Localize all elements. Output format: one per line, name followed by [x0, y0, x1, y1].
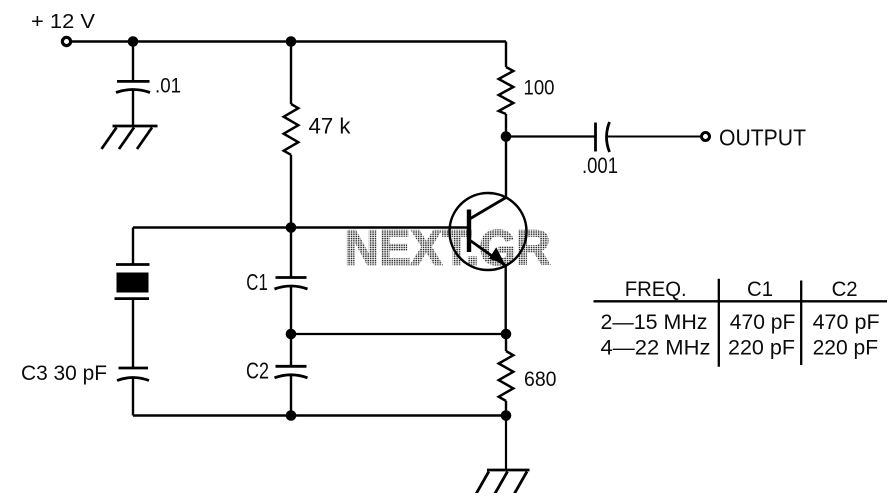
svg-text:.01: .01 [155, 74, 181, 98]
wire 100 bottom lead [505, 114, 507, 137]
wire 680 bottom lead [505, 401, 507, 416]
svg-text:220 pF: 220 pF [728, 336, 795, 360]
node junction top rail / 47k [286, 36, 297, 47]
svg-text:.001: .001 [582, 153, 618, 178]
wire C2 top lead [290, 334, 292, 366]
capacitor .01 [116, 81, 150, 92]
crystal Y1 [115, 265, 150, 299]
wire 47k bottom lead to base node [290, 155, 292, 228]
svg-text:+ 12 V: + 12 V [31, 10, 95, 33]
wire coupling cap to output terminal [608, 136, 701, 138]
svg-text:47 k: 47 k [309, 114, 352, 139]
wire mid row to emitter [291, 333, 506, 335]
wire base node to C1 [290, 228, 292, 278]
svg-text:470 pF: 470 pF [730, 310, 796, 334]
capacitor C1 [275, 278, 308, 290]
wire 680 top lead [505, 334, 507, 351]
node bottom rail / 680 junction [501, 410, 512, 421]
ground (bypass) [102, 126, 158, 149]
resistor R 47k [284, 104, 299, 155]
svg-text:NEXT.GR: NEXT.GR [345, 222, 551, 276]
resistor R 100 [499, 67, 514, 114]
node emitter junction [501, 329, 512, 340]
node base junction [286, 222, 297, 233]
node C1-C2 mid junction [286, 329, 297, 340]
svg-text:2—15 MHz: 2—15 MHz [601, 310, 708, 334]
node bottom rail / C2 junction [286, 410, 297, 421]
svg-text:C1: C1 [246, 269, 267, 295]
wire crystal branch down [132, 228, 134, 265]
ground (emitter network) [476, 470, 530, 494]
wire base lead [133, 226, 467, 228]
node collector/output junction [501, 131, 512, 142]
capacitor .001 [596, 122, 610, 152]
svg-text:C2: C2 [246, 358, 269, 384]
svg-text:OUTPUT: OUTPUT [719, 125, 806, 151]
wire emitter lead [505, 264, 507, 334]
wire C2 to bottom rail [290, 376, 292, 416]
wire collector lead [505, 137, 507, 199]
node OUTPUT terminal [702, 133, 710, 141]
wire C1 to mid node [290, 287, 292, 334]
svg-text:100: 100 [524, 76, 555, 100]
wire crystal to C3 [132, 299, 134, 368]
wire bypass cap to ground [132, 91, 134, 127]
node +12V terminal [62, 37, 70, 45]
wire C3 to bottom rail [132, 379, 134, 416]
svg-text:220 pF: 220 pF [813, 336, 879, 360]
resistor R 680 [499, 351, 514, 401]
node junction top rail / bypass [128, 36, 139, 47]
svg-text:C3 30 pF: C3 30 pF [21, 361, 107, 385]
wire 100 resistor top lead [505, 42, 507, 68]
wire output to coupling cap [506, 135, 596, 137]
table: component value table [594, 279, 888, 367]
svg-text:4—22 MHz: 4—22 MHz [601, 336, 711, 360]
svg-text:680: 680 [524, 367, 557, 391]
wire top rail from +12V to 100 resistor branch [72, 40, 507, 42]
svg-text:FREQ.: FREQ. [625, 277, 687, 301]
svg-text:C1: C1 [747, 277, 773, 301]
wire 47k top lead [290, 42, 292, 105]
wire bypass branch down from top rail [132, 42, 134, 82]
wire bottom rail [133, 414, 506, 417]
wire 680 to ground [505, 416, 507, 471]
transistor Q1 [450, 193, 527, 270]
svg-text:470 pF: 470 pF [813, 310, 880, 334]
svg-text:C2: C2 [832, 277, 858, 301]
capacitor C2 [275, 366, 308, 378]
capacitor C3 [117, 368, 149, 381]
